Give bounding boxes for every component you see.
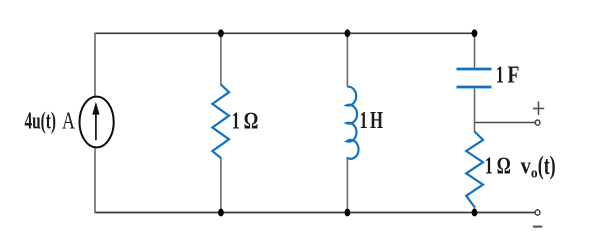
svg-text:o: o: [531, 166, 538, 182]
terminal plus circle: [535, 120, 540, 125]
label C1 1F: [496, 63, 520, 89]
wire L1 branch lower: [346, 157, 348, 212]
label R2 1ohm: [485, 154, 511, 180]
node bottom C: [472, 209, 478, 217]
terminal minus circle: [535, 210, 540, 215]
wire R1 branch upper: [220, 33, 222, 85]
wire mid node to R2 top: [474, 123, 476, 133]
wire L1 branch upper: [346, 33, 348, 87]
label vo(t): [521, 151, 556, 181]
svg-text:F: F: [507, 63, 519, 89]
wire left upper: [94, 33, 96, 97]
capacitor C1 plates: [457, 69, 492, 87]
resistor R1 zigzag: [212, 85, 229, 159]
svg-text:(t): (t): [538, 151, 556, 180]
label 4u(t) A: [25, 109, 76, 135]
node top A: [218, 29, 224, 37]
svg-text:Ω: Ω: [497, 154, 511, 180]
inductor L1: [347, 87, 359, 159]
svg-text:v: v: [521, 154, 531, 180]
svg-text:4u(t): 4u(t): [25, 109, 57, 135]
svg-text:H: H: [370, 108, 383, 134]
label R1 1ohm: [232, 109, 258, 135]
top wire: [95, 32, 475, 34]
node bottom A: [218, 209, 224, 217]
label L1 1H: [360, 108, 384, 134]
svg-text:1: 1: [496, 63, 504, 89]
svg-text:1: 1: [232, 109, 240, 135]
svg-text:Ω: Ω: [244, 109, 258, 135]
current source I1 circle: [80, 97, 114, 148]
wire C1 branch upper: [474, 33, 476, 67]
wire C1 to mid node: [474, 89, 476, 123]
node top C: [472, 29, 478, 37]
svg-text:A: A: [62, 109, 75, 135]
minus sign: [533, 226, 542, 228]
wire R2 bottom stub: [474, 206, 476, 213]
plus sign: [533, 101, 544, 115]
node top B: [345, 29, 351, 37]
bottom wire: [95, 212, 535, 214]
wire left lower: [94, 148, 96, 214]
node bottom B: [345, 209, 351, 217]
wire mid node to plus terminal: [475, 122, 536, 124]
resistor R2 zigzag: [466, 132, 483, 208]
wire R1 branch lower: [220, 158, 222, 213]
svg-text:1: 1: [360, 108, 368, 134]
svg-text:1: 1: [485, 154, 493, 180]
current source I1 arrow: [92, 102, 99, 140]
